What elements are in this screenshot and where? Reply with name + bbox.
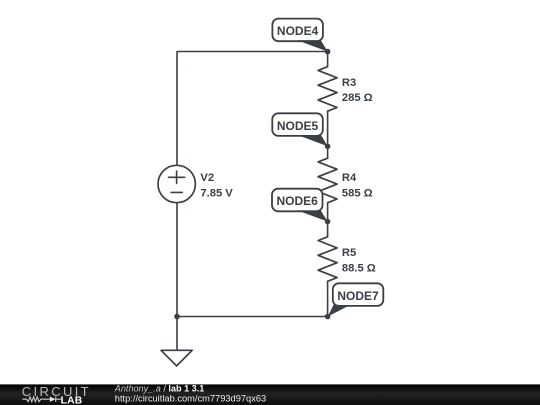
svg-text:NODE4: NODE4 (277, 24, 319, 38)
svg-text:88.5 Ω: 88.5 Ω (342, 262, 376, 274)
svg-text:Anthony_.a / lab 1 3.1: Anthony_.a / lab 1 3.1 (114, 383, 205, 393)
svg-text:7.85 V: 7.85 V (200, 187, 233, 199)
svg-text:http://circuitlab.com/cm7793d9: http://circuitlab.com/cm7793d97qx63 (115, 394, 266, 404)
svg-text:285 Ω: 285 Ω (342, 92, 373, 104)
svg-text:R4: R4 (342, 172, 357, 184)
svg-text:NODE5: NODE5 (277, 119, 319, 133)
svg-text:585 Ω: 585 Ω (342, 187, 373, 199)
svg-text:R5: R5 (342, 247, 356, 259)
svg-text:NODE6: NODE6 (277, 194, 319, 208)
svg-text:LAB: LAB (61, 395, 83, 405)
svg-text:NODE7: NODE7 (337, 289, 379, 303)
svg-text:R3: R3 (342, 77, 356, 89)
svg-text:V2: V2 (200, 172, 214, 184)
